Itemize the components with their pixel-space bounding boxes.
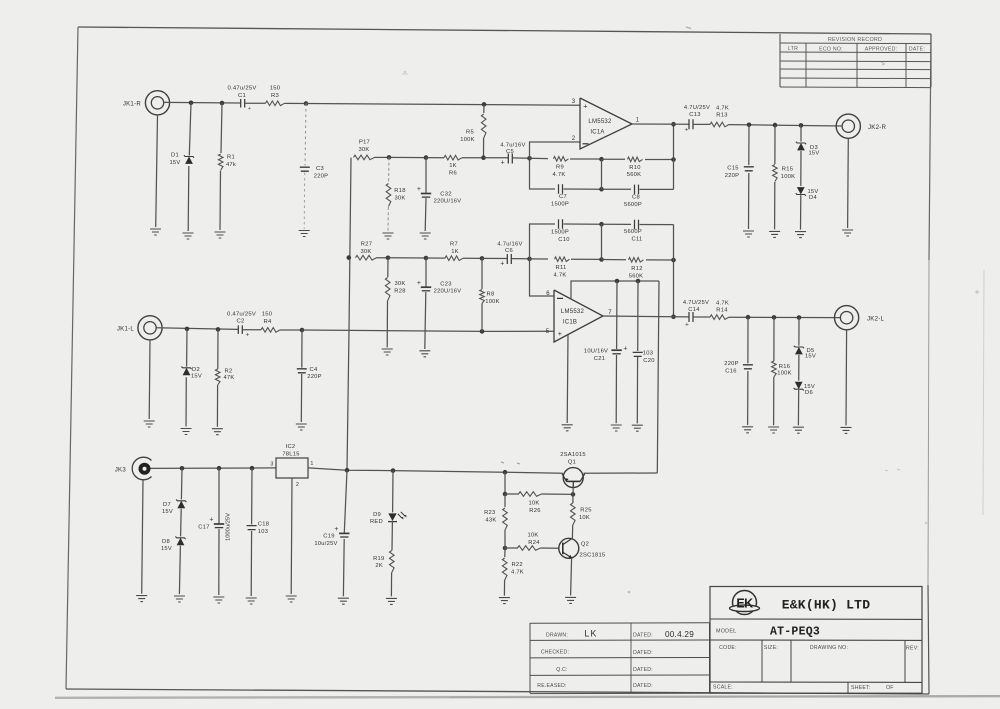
transistor Q1 (2SA1015) [562,468,585,488]
svg-text:R15: R15 [782,166,793,172]
svg-text:R22: R22 [512,562,523,568]
capacitor C8 [635,185,639,195]
svg-text:IC1A: IC1A [590,130,604,136]
label + (C6) [500,261,504,268]
ground (R18) [383,233,394,239]
node C16 tap [746,315,751,320]
node IC1A output [671,122,676,127]
svg-text:2SA1015: 2SA1015 [560,452,586,458]
scan speck 8 [501,462,520,464]
resistor R1 (vertical) [218,154,223,170]
svg-text:560K: 560K [627,172,642,178]
node feedback mid (row1) [599,157,604,162]
capacitor C20 [633,352,643,356]
label R15 100K [781,166,796,180]
label R4 150 [262,312,273,325]
zener diode D5 [794,346,804,355]
wire feedback right rail vertical (row2) [673,225,675,317]
wire C8 to right rail [640,188,674,190]
wire Q2 emitter to ground [571,558,572,596]
svg-text:100K: 100K [460,137,475,143]
label R14 4.7K [716,300,729,313]
ground (IC1B V-) [562,425,573,431]
wire cap mid vertical (row2) [601,224,603,259]
label + (C19) [334,526,338,533]
wire feedback right rail vertical [673,124,675,189]
node feedback right (row1) [671,157,676,162]
node IC1A pin2 net [527,156,532,161]
pin label 6 (IC1B) [546,291,550,297]
wire D7 branch [180,468,183,499]
ground (R16) [768,427,779,433]
label + (C5) [501,160,505,167]
resistor R5 (vertical) [481,104,486,157]
label R6 1K [449,163,457,177]
wire C2 to R4 [243,329,261,331]
svg-text:E&K(HK) LTD: E&K(HK) LTD [782,598,871,613]
svg-text:R23: R23 [484,510,495,516]
wire D2 branch down [186,329,187,427]
svg-text:C15: C15 [727,165,738,171]
title label SHEET: OF [851,685,894,691]
regulator IC2 78L15 [276,458,308,478]
ground (Q2) [565,597,576,603]
sign-off label DATED: (checked) [633,650,653,656]
wire node to IC1A pin3 [306,104,580,106]
svg-text:C21: C21 [594,356,605,362]
svg-text:DRAWING NO:: DRAWING NO: [810,645,848,651]
label JK2-L [867,315,885,322]
label C8 5600P [624,194,642,207]
wire feedback row2 from pin6 node [530,258,549,260]
pin label 1 (IC1A) [636,118,640,124]
label R1 47k [226,155,236,169]
svg-text:+: + [685,321,689,328]
wire R26 left stub [505,493,519,495]
wire D5 branch upper [798,318,800,346]
plus sign IC1A pin3 [583,101,587,110]
sign-off label CHECKED: [541,650,569,656]
node R5 on input wire [482,102,487,107]
wire R19 to ground [390,573,392,597]
wire C23 branch [425,258,426,349]
svg-text:DATED:: DATED: [633,650,653,656]
resistor R28 (vertical) [385,278,390,301]
svg-text:JK1-L: JK1-L [117,325,135,332]
wire R9 to mid node [570,158,602,160]
capacitor C2 [238,325,242,334]
label C32 220U/16V [434,191,462,204]
svg-text:C17: C17 [198,525,209,531]
node R8 bottom on L wire [480,329,485,334]
svg-text:C4: C4 [310,367,318,373]
svg-text:Q1: Q1 [568,460,576,466]
ground (R19) [386,598,397,604]
svg-text:4.7K: 4.7K [554,272,567,278]
wire mid to R12 [602,259,627,261]
pin label 7 (IC1B) [608,310,612,316]
wire C1 to R3 [245,102,265,104]
company logo EK [730,591,760,615]
pin label 3 (IC2) [270,461,273,467]
label + (C21) [623,345,627,352]
svg-text:10K: 10K [528,501,539,507]
svg-text:4.7U/25V: 4.7U/25V [684,105,710,111]
svg-text:SHEET:: SHEET: [851,685,871,691]
svg-text:220P: 220P [725,173,740,179]
label R23 4.3K [484,510,496,523]
wire R18 branch (faint) [388,157,389,231]
ground wire from JK1-R [156,116,158,227]
svg-text:R26: R26 [529,508,540,514]
ground (D7/D8) [174,596,185,602]
pin label 2 (IC1A) [572,136,576,142]
label R25 10K [579,507,592,520]
svg-text:Q.C:: Q.C: [556,667,567,673]
scan speck 6 [885,469,900,471]
wire D3 branch upper [800,125,802,141]
title label DRAWING NO: [810,645,848,651]
resistor R2 (vertical) [215,369,220,385]
label C17 [198,525,209,531]
label R7 1K [450,242,459,255]
label LM5532 (IC1A) [588,119,612,125]
wire C21 branch [615,281,618,423]
wire P17 to R18 node [375,156,390,158]
input jack JK1-R [145,91,169,115]
node on input wire at R1 [220,101,225,106]
minus sign IC1A pin2 [583,143,589,145]
label Q2 2SC1815 [580,542,606,559]
pin label 2 (IC2) [296,482,299,488]
svg-text:D4: D4 [809,195,817,201]
svg-text:1000u/25V: 1000u/25V [226,513,232,541]
wire R4 to C4 node [280,329,302,331]
resistor R16 (vertical) [772,361,777,377]
svg-text:+: + [684,127,688,134]
label C2 0.47u/25V [227,312,256,325]
sign-off label DATED: (released) [633,683,653,689]
svg-text:2K: 2K [375,563,383,569]
minus sign IC1B pin6 [557,297,563,299]
svg-text:R3: R3 [271,93,280,99]
svg-text:R10: R10 [629,165,640,171]
svg-text:R11: R11 [556,265,567,271]
wire node to C5 [484,157,509,159]
svg-text:C16: C16 [725,368,736,374]
svg-text:JK1-R: JK1-R [123,100,142,107]
svg-text:P17: P17 [359,140,370,146]
svg-text:C11: C11 [632,236,643,242]
wire R26 to Q1 base node [542,493,574,495]
svg-text:R1: R1 [227,155,235,161]
svg-text:C20: C20 [643,358,654,364]
ground (JK1-R) [150,229,161,235]
svg-text:LTR: LTR [788,46,798,52]
wire JK1-L to C2 [157,328,238,330]
capacitor C32 (electrolytic) [421,194,431,198]
wire cap mid vertical [601,159,603,189]
sign-off label DATED: (qc) [633,667,653,673]
wire JK3 to IC2 pin3 [151,467,277,470]
svg-text:D8: D8 [162,539,170,545]
label C14 4.7U/25V [683,300,709,313]
label JK3 [115,466,127,473]
label C7 1500P [551,194,569,207]
svg-text:220P: 220P [724,361,739,367]
svg-text:150: 150 [270,86,281,92]
wire rail tap down [504,472,506,494]
svg-text:DATE:: DATE: [909,47,925,53]
label + (C17) [209,516,213,523]
svg-text:C7: C7 [559,194,567,200]
wire R6 to R5 node [462,157,484,159]
capacitor C21 (electrolytic) [611,350,621,354]
svg-text:+: + [417,280,421,287]
zener diode D1 [184,155,194,164]
label C19 10u/25V [314,534,337,547]
wire R7 to R8 node [463,257,482,259]
wire P17 net vertical (left) [347,158,351,471]
node cap mid (row2) [599,222,604,227]
svg-text:C1: C1 [238,93,246,99]
node R28 tap [386,255,391,260]
label C13 4.7U/25V [684,105,710,118]
node IC1B output [671,315,676,320]
resistor R10 [628,157,643,162]
wire R10 to right rail [645,159,674,161]
label R11 4.7K [554,265,567,278]
svg-text:+: + [334,526,338,533]
ground wire from JK1-L [148,341,151,419]
pin label 3 (IC1A) [572,99,576,105]
wire up to IC1A pin 2 [530,142,580,158]
svg-text:6: 6 [546,291,550,297]
svg-text:D7: D7 [163,502,171,508]
label C20 103 [643,351,655,364]
wire C23 node to R7 [426,257,445,259]
svg-text:5: 5 [546,329,550,335]
node R24 left / R23 bottom [503,546,508,551]
resistor R12 [629,258,644,263]
wire down to IC1B pin 6 [530,259,554,296]
transistor Q2 (2SC1815) [559,538,579,558]
svg-text:47k: 47k [226,162,236,168]
zener diode D8 [175,537,185,546]
capacitor C1 [241,99,245,108]
resistor R25 (vertical) [571,494,576,538]
capacitor C6 [507,254,511,264]
node IC1B pin6 net [527,257,532,262]
svg-text:15V: 15V [808,151,819,157]
resistor R15 (vertical) [773,165,778,182]
revision table column lines [806,43,906,87]
label + (C14) [685,321,689,328]
svg-text:4.7K: 4.7K [553,172,566,178]
svg-text:4.7K: 4.7K [511,570,524,576]
node R27 left [347,255,352,260]
svg-text:JK2-L: JK2-L [867,315,885,322]
wire R14 to JK2-L [729,316,840,318]
svg-text:4.7u/16V: 4.7u/16V [497,241,522,247]
label R9 4.7K [553,164,566,177]
label D6 15V [804,384,815,396]
node R16 tap [772,315,777,320]
capacitor C18 [247,526,257,530]
scan speck 2 [686,27,691,29]
svg-text:C18: C18 [258,521,269,527]
label R19 2K [373,556,384,569]
wire R28 to ground (crosses L wire) [386,301,388,348]
wire Q1 collector to supply corner [584,472,658,474]
svg-text:D1: D1 [171,153,179,159]
op-amp U1A (LM5532 IC1A) [580,98,632,149]
svg-text:4.7U/25V: 4.7U/25V [683,300,709,306]
svg-text:R24: R24 [528,540,540,546]
svg-text:IC1B: IC1B [563,320,577,326]
node C32 tap [424,155,429,160]
svg-text:R5: R5 [466,129,474,135]
svg-text:220P: 220P [307,374,322,380]
resistor P17 [354,155,375,160]
wire Q1 base to node [572,488,574,495]
svg-text:103: 103 [643,351,653,357]
ground (R22) [499,598,510,604]
title label REV: [906,645,919,651]
capacitor C17 (electrolytic) [214,524,224,528]
capacitor C11 [635,220,639,230]
node R23/R26 rail tap [503,470,508,475]
svg-text:0.47u/25V: 0.47u/25V [227,86,256,92]
node C20 tap on rail [636,279,641,284]
node on L wire at R2 [216,327,221,332]
svg-text:LM5532: LM5532 [588,119,612,125]
capacitor C3 [300,167,310,171]
resistor R13 [710,122,729,127]
wire C14 to R14 [694,316,710,318]
ground wire from JK2-L [845,331,848,426]
ground (C17) [213,597,224,603]
ground (C23) [419,351,430,357]
title label SIZE: [764,645,778,651]
node feedback right (row2) [671,258,676,263]
capacitor C4 [297,369,307,373]
label R12 560K [629,266,644,279]
power jack JK3 [132,457,151,480]
node C18 tap [250,466,255,471]
revision record table grid [780,34,931,88]
svg-text:+: + [417,186,421,193]
wire R24 to Q2 base [541,547,559,549]
op-amp U1B (LM5532 IC1B) [554,290,603,342]
sign-off label DRAWN: [546,632,568,638]
svg-text:C2: C2 [236,319,244,325]
label R27 30K [360,241,372,254]
svg-text:EK: EK [736,596,753,610]
wire IC1A pin1 to output node [632,123,689,125]
svg-text:220U/16V: 220U/16V [434,289,462,295]
capacitor C19 (electrolytic) [339,533,349,537]
svg-text:4.7K: 4.7K [716,300,729,306]
ground wire from JK2-R [847,139,850,228]
wire D1 branch down [188,103,191,231]
ground (R2) [212,429,223,435]
label IC1B [563,320,577,326]
svg-text:C14: C14 [688,307,700,313]
svg-text:15V: 15V [805,354,816,360]
plus sign IC1B pin5 [558,329,562,338]
svg-text:C8: C8 [632,194,640,200]
svg-text:C19: C19 [323,534,334,540]
label C16 220P [724,361,739,374]
svg-text:SIZE:: SIZE: [764,645,778,651]
svg-text:2SC1815: 2SC1815 [580,552,606,558]
svg-text:+: + [623,345,627,352]
ground (JK1-L) [144,421,155,427]
label D7 15V [162,502,173,515]
wire R18 node to C32 node [389,156,426,158]
label C23 220U/16V [434,281,462,294]
wire mid node to R10 [602,158,626,160]
wire C18 branch [250,468,253,596]
node D7 tap [180,466,185,471]
label C18 103 [258,521,269,535]
svg-text:15V: 15V [169,160,180,166]
wire R15 branch [774,125,776,229]
node R26 left [503,492,508,497]
resistor R27 [356,255,377,260]
svg-text:4.7K: 4.7K [716,105,729,111]
wire R8 node to C6 [482,257,507,259]
node C21 tap on rail [615,279,620,284]
pin label 5 (IC1B) [546,329,550,335]
resistor R24 [518,546,541,551]
svg-text:78L15: 78L15 [282,452,299,458]
wire C20 branch [636,281,639,423]
svg-text:560K: 560K [629,274,644,280]
label + (C13) [684,127,688,134]
title label MODEL : [716,629,736,635]
svg-text:LM5532: LM5532 [561,309,585,315]
svg-text:JK2-R: JK2-R [868,124,887,131]
node C19 tap [345,468,350,473]
wire C32 branch [424,158,427,231]
svg-text:R4: R4 [263,319,272,325]
wire C3 to ground (faint) [303,173,306,230]
svg-text:IC2: IC2 [286,444,296,450]
title label SCALE: [713,685,733,691]
svg-text:100K: 100K [485,299,500,305]
svg-text:CHECKED:: CHECKED: [541,650,569,656]
label R16 100K [777,364,792,376]
title model AT-PEQ3 [770,626,820,639]
wire R3 to node [285,102,307,104]
svg-text:5600P: 5600P [624,229,642,235]
company name E&K(HK) LTD [782,598,871,613]
label 1000u/25V (rotated) [226,513,232,541]
ground (C3) [299,231,310,237]
wire D9 branch [392,471,394,513]
svg-text:C10: C10 [558,237,569,243]
wire R24 left stub [505,547,518,549]
svg-text:DATED:: DATED: [633,683,653,689]
label D8 15V [161,539,172,552]
svg-text:30K: 30K [358,147,369,153]
svg-text:DRAWN:: DRAWN: [546,632,568,638]
scan speck 1 [402,71,408,74]
label P17 30K [358,140,370,153]
svg-text:ECO NO:: ECO NO: [819,46,843,52]
